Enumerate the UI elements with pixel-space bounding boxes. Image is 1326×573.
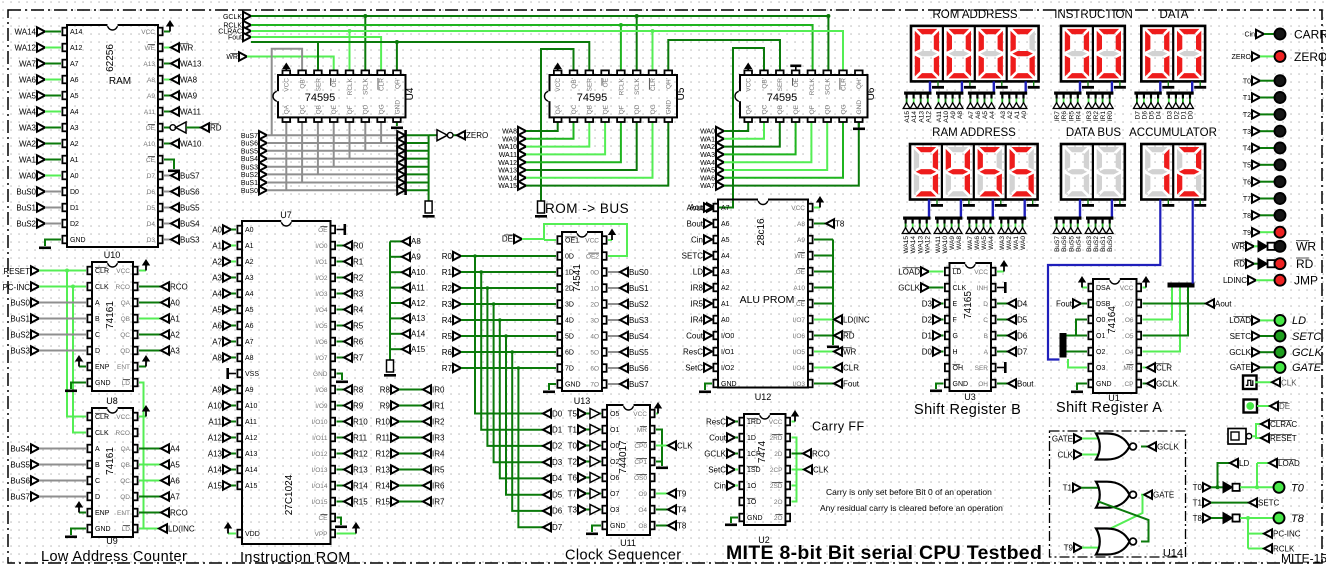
svg-text:U4: U4 [405,87,416,100]
svg-text:A13: A13 [143,61,155,68]
svg-text:IR6: IR6 [432,481,445,490]
wire R6 to U13 [461,351,556,353]
svg-text:WA13: WA13 [180,59,202,68]
wire U5 QB pull-down [541,49,574,201]
wire CLRAC to U4 RCLK [349,31,351,75]
wire [45,79,61,81]
tunnel R6 from U7 [337,341,345,343]
svg-text:GND: GND [95,526,111,533]
svg-text:WA9: WA9 [949,236,956,250]
svg-text:CP: CP [1124,381,1133,388]
svg-text:WE: WE [795,253,806,260]
svg-text:A5: A5 [982,111,989,119]
tunnel R8 from U7 [337,389,345,391]
svg-text:A6: A6 [212,321,222,330]
wire R4 staircase to D4 [500,320,543,478]
svg-text:LDINC: LDINC [1223,276,1247,285]
svg-text:ResC: ResC [706,417,726,426]
svg-text:RCO: RCO [812,449,830,458]
wire zero-gate outputs [407,134,429,136]
svg-text:WA13: WA13 [917,236,924,254]
svg-text:SER: SER [315,78,322,92]
svg-text:74161: 74161 [105,447,116,475]
svg-text:T1: T1 [1063,484,1073,493]
svg-text:VCC: VCC [116,414,130,421]
svg-text:QF: QF [347,105,354,114]
svg-text:A8: A8 [797,221,805,228]
tunnel LDINC [159,524,167,532]
svg-text:LD: LD [1292,315,1306,327]
svg-text:IR7: IR7 [432,497,445,506]
svg-text:A14: A14 [208,465,223,474]
svg-text:I/O9: I/O9 [315,403,328,410]
svg-text:I/O7: I/O7 [315,355,328,362]
svg-text:JMP: JMP [1294,273,1318,287]
wire U8 VCC [139,416,146,418]
net U5.QH to U6.SER [668,40,780,75]
svg-text:D2: D2 [70,221,79,228]
reset source component [1228,429,1246,445]
svg-text:QC: QC [300,104,307,114]
svg-text:IR5: IR5 [1068,111,1075,122]
tunnel R9 from U7 [337,405,345,407]
svg-text:CLK: CLK [1057,450,1073,459]
svg-text:BuS2: BuS2 [16,219,36,228]
wire display digit common [1000,200,1002,205]
svg-text:R0: R0 [442,252,453,261]
svg-text:I/O0: I/O0 [721,333,734,340]
wire U7 CE tie low [337,518,342,526]
shift register U3 74165 [950,263,992,391]
svg-text:Carry FF: Carry FF [812,420,865,434]
svg-text:BuS4: BuS4 [10,444,30,453]
tunnel R11 from U7 [337,437,345,439]
svg-text:QF: QF [809,105,816,114]
svg-text:T2: T2 [1243,112,1251,119]
svg-text:RCO: RCO [116,430,130,437]
wire U1 O6 to bar [1143,288,1173,320]
svg-text:A3: A3 [1000,111,1007,119]
svg-text:CLR: CLR [95,414,109,421]
svg-text:4D: 4D [565,318,574,325]
svg-text:A10: A10 [143,141,155,148]
svg-text:GND: GND [70,237,86,244]
svg-text:T3: T3 [568,505,578,514]
svg-text:I/O2: I/O2 [721,365,734,372]
wire BuS3 gray [267,166,399,168]
svg-text:D5: D5 [552,491,563,500]
svg-text:A1: A1 [70,157,79,164]
svg-text:IR7: IR7 [1054,111,1061,122]
svg-text:R11: R11 [376,433,391,442]
tunnel GCLK from gate1 [1141,446,1148,448]
svg-text:RCO: RCO [170,282,188,291]
tunnel A8 out [390,240,402,242]
svg-text:A15: A15 [904,111,911,123]
svg-text:A9: A9 [147,93,155,100]
svg-text:R1: R1 [353,257,364,266]
svg-text:GATE: GATE [1292,362,1322,374]
svg-text:O6: O6 [1125,317,1134,324]
tunnel D1 [543,426,551,434]
svg-text:Instruction ROM: Instruction ROM [240,550,351,566]
svg-text:2SD: 2SD [770,483,783,490]
svg-text:A7: A7 [212,337,222,346]
tunnel R5 from U7 [337,325,345,327]
svg-text:CLR: CLR [379,78,386,91]
display DATA [1141,26,1205,82]
svg-text:D0: D0 [552,409,563,418]
U3 INH tie [997,287,1004,289]
svg-text:R13: R13 [375,465,390,474]
svg-text:MR: MR [1123,365,1133,372]
svg-text:BuS5: BuS5 [10,460,30,469]
wire BuS2 gray [267,173,399,175]
svg-text:GND: GND [313,371,328,378]
wire WA0 to U6 [724,119,748,131]
wire [45,31,61,33]
svg-text:I/O1: I/O1 [315,259,328,266]
svg-text:WA1: WA1 [1013,236,1020,250]
svg-text:D0: D0 [922,347,933,356]
buffer U13 74541 [562,232,602,391]
svg-text:MITE 8-bit Bit serial CPU Test: MITE 8-bit Bit serial CPU Testbed [726,542,1042,564]
svg-text:VCC: VCC [284,78,291,92]
svg-text:D: D [983,301,988,308]
svg-text:IR4: IR4 [691,315,704,324]
svg-text:A0: A0 [1021,111,1028,119]
wire display digit blue [928,200,930,218]
tunnel RCO to U2 2D [792,453,804,455]
svg-text:74541: 74541 [572,264,583,292]
svg-text:GND: GND [747,515,763,522]
svg-text:BuS1: BuS1 [10,314,30,323]
svg-text:WA3: WA3 [999,236,1006,250]
connector DATA BUS pins [1054,217,1081,220]
svg-text:IR5: IR5 [432,465,445,474]
svg-text:I/O12: I/O12 [312,451,328,458]
tunnel WR from U12 [814,351,834,353]
svg-text:OE1: OE1 [565,238,579,245]
svg-text:R11: R11 [353,433,368,442]
svg-text:GCLK: GCLK [1156,379,1178,388]
svg-text:I/O6: I/O6 [793,333,806,340]
counter U10 74161 [92,262,133,391]
svg-text:GND: GND [610,523,626,530]
svg-text:BuS3: BuS3 [180,235,200,244]
svg-text:A10: A10 [411,268,426,277]
svg-text:BuS6: BuS6 [629,364,649,373]
svg-text:4O: 4O [590,333,599,340]
svg-text:WA10: WA10 [498,144,517,151]
svg-text:1D: 1D [747,435,756,442]
wire U8 GND [71,529,86,536]
wire U2 VCC [792,421,796,423]
svg-text:U14: U14 [1163,548,1183,560]
svg-text:T5: T5 [568,409,578,418]
svg-text:74164: 74164 [1107,306,1118,334]
tunnel LD(INC from U12 [814,319,834,321]
svg-text:IR5: IR5 [691,299,704,308]
tunnel CLRAC [1261,420,1269,428]
svg-text:D6: D6 [552,507,563,516]
svg-text:WA10: WA10 [180,139,202,148]
wire display digit common [1119,200,1121,205]
LED SETC [1275,331,1286,342]
svg-text:QE: QE [331,104,338,114]
svg-text:WA11: WA11 [935,236,942,253]
svg-text:I/O11: I/O11 [312,435,328,442]
tunnel R13 from U7 [337,469,345,471]
wire U5 VCC [557,68,559,74]
wire R4 to U13 [461,319,556,321]
svg-text:RD: RD [843,331,855,340]
tunnel A13 out [390,317,402,319]
svg-text:RD: RD [1296,257,1314,271]
EPROM U7 27C1024 [242,221,331,544]
wire BuS5 gray [267,150,399,152]
svg-text:Aout: Aout [1215,299,1232,308]
svg-text:R14: R14 [375,481,390,490]
svg-text:C: C [95,332,100,339]
svg-text:SETC: SETC [1292,331,1321,343]
wire R3 to U13 [461,303,556,305]
tunnel R15 from U7 [337,501,345,503]
svg-text:CLR: CLR [95,268,109,275]
svg-text:A11: A11 [208,417,222,426]
svg-text:A2: A2 [70,141,79,148]
wire R2 staircase to D2 [487,288,543,446]
svg-text:QB': QB' [761,78,768,89]
net reset to CLRAC RESET [1252,424,1261,436]
svg-text:WA8: WA8 [956,236,963,250]
svg-text:D: D [95,348,100,355]
svg-text:WA0: WA0 [19,171,37,180]
svg-text:D5: D5 [147,205,156,212]
svg-text:O8: O8 [638,523,647,530]
svg-text:5D: 5D [565,334,574,341]
wire [45,111,61,113]
inverter RAM OE - RD [164,127,170,129]
wire U1 O4 to bar [1143,288,1181,352]
LED GCLK [1275,347,1286,358]
tunnel D3 [543,458,551,466]
svg-text:WA1: WA1 [700,136,715,143]
svg-text:RCO: RCO [116,284,130,291]
tunnel D4 [543,474,551,482]
svg-text:D1: D1 [70,205,79,212]
svg-text:WA4: WA4 [19,107,37,116]
tunnel A3 from U10 [139,350,161,352]
LED T5 [1275,159,1286,170]
svg-text:A3: A3 [70,125,79,132]
svg-text:WA12: WA12 [15,43,37,52]
svg-text:CLK: CLK [1281,378,1297,387]
svg-text:PC-INC: PC-INC [2,283,30,292]
svg-text:BuS3: BuS3 [1086,236,1093,252]
inverter zero [429,134,437,136]
svg-text:OS0: OS0 [634,475,647,482]
connector RAM ADDRESS pins [903,217,930,220]
wire gate2 feedback to gate3 [1098,495,1143,535]
svg-text:U5: U5 [676,87,687,100]
svg-text:I/O14: I/O14 [312,483,328,490]
svg-text:BuS0: BuS0 [1107,236,1114,252]
svg-text:ACCUMULATOR: ACCUMULATOR [1129,127,1217,139]
LED T7 [1275,193,1286,204]
svg-text:BuS6: BuS6 [10,476,30,485]
svg-text:IR6: IR6 [1061,111,1068,122]
NOR gate U14a [1096,434,1130,460]
svg-text:U12: U12 [755,392,772,402]
svg-text:GND: GND [666,100,673,115]
wire U10 ENT tie [139,366,146,368]
svg-text:R3: R3 [442,300,453,309]
svg-text:A13: A13 [918,111,925,123]
svg-text:A5: A5 [70,93,79,100]
wire display digit blue [1023,200,1025,218]
svg-text:T7: T7 [1243,196,1251,203]
svg-text:H: H [953,349,958,356]
svg-text:D4: D4 [1017,299,1028,308]
svg-text:D2: D2 [552,442,563,451]
svg-text:T3: T3 [1243,129,1251,136]
tunnel WA8 [164,79,171,81]
svg-text:D7: D7 [1135,111,1142,120]
svg-text:IR1: IR1 [432,401,445,410]
tunnel D4 from U3 [997,303,1008,305]
svg-text:6O: 6O [590,365,599,372]
svg-text:SETC: SETC [1230,332,1252,341]
svg-text:Clock Sequencer: Clock Sequencer [565,548,681,564]
svg-text:VCC: VCC [141,29,155,36]
svg-text:QB: QB [777,105,784,114]
tunnel A4 from U8 [139,448,161,450]
svg-text:GCLK: GCLK [1229,348,1251,357]
tunnel WR at RAM WE [164,47,171,49]
svg-text:Fout: Fout [228,35,242,42]
svg-text:A7: A7 [968,111,975,119]
svg-text:CLK: CLK [953,285,967,292]
wire U10 VCC [139,270,146,272]
svg-text:Aout: Aout [687,203,704,212]
svg-text:QG: QG [840,104,847,114]
wire display digit blue [1079,200,1081,218]
svg-text:A1: A1 [170,314,180,323]
wire U4 VCC [285,68,287,74]
wire display digit common [1033,81,1035,86]
svg-text:OE: OE [603,77,610,87]
U13 outputs to BuS tunnels [608,271,620,273]
svg-text:WR: WR [1296,239,1316,253]
svg-text:BuS0: BuS0 [16,187,36,196]
svg-text:BuS7: BuS7 [1054,236,1061,252]
svg-text:O1: O1 [1096,333,1105,340]
svg-text:A8: A8 [212,353,222,362]
svg-text:WA12: WA12 [498,160,517,167]
wire display digit blue [1079,81,1081,92]
wire R0 staircase to D0 [475,256,543,414]
svg-text:QG: QG [379,104,386,114]
svg-text:GCLK: GCLK [704,449,726,458]
svg-text:LD: LD [953,269,962,276]
svg-text:OE: OE [793,77,800,87]
wire U7 GND [337,374,343,381]
svg-text:SER: SER [975,365,989,372]
tunnel A12 out [390,302,402,304]
wire U1 VCC [1143,287,1147,289]
shift register U6 74595 [740,75,868,117]
svg-text:A12: A12 [411,299,426,308]
svg-text:A3: A3 [721,269,730,276]
svg-text:DE: DE [502,235,513,244]
tunnel CLR to U1 MR [1143,367,1148,369]
junction bar U1 outputs [1168,283,1195,288]
svg-text:R6: R6 [442,348,453,357]
svg-text:WA7: WA7 [700,183,715,190]
svg-text:74161: 74161 [105,301,116,329]
svg-text:QC: QC [120,478,130,485]
wire WA5 to U6 [724,119,827,170]
wire WA3 to U6 [724,119,796,154]
wire U12 upper address tie [832,240,834,346]
svg-text:A2: A2 [245,259,254,266]
wire display digit common [1199,200,1201,205]
wire BuS4 gray [267,158,399,160]
svg-text:CLRAC: CLRAC [1270,420,1297,429]
svg-text:A13: A13 [411,314,426,323]
svg-text:CLR: CLR [843,363,859,372]
inverter pair T0 [1223,482,1233,493]
svg-text:7D: 7D [565,366,574,373]
svg-text:BuS3: BuS3 [10,346,30,355]
svg-text:ENP: ENP [95,364,110,371]
svg-text:ENT: ENT [117,364,130,371]
tunnel T8 from U11 [656,525,668,527]
svg-text:CE: CE [796,301,806,308]
svg-text:G: G [953,333,958,340]
svg-text:A2: A2 [1007,111,1014,119]
wire BuS6 gray [267,142,399,144]
svg-text:3O: 3O [590,317,599,324]
svg-text:R6: R6 [353,337,364,346]
tunnel BuS3 RAM data [164,239,171,241]
tunnel A10 out [390,271,402,273]
tunnel GCLK to U1 CP [1143,383,1148,385]
wire WA7 to U6 [724,119,859,185]
svg-text:7474: 7474 [757,440,768,463]
svg-text:O2: O2 [1096,349,1105,356]
svg-text:QA: QA [746,104,753,114]
wire U6 VCC [747,68,749,74]
svg-text:WA7: WA7 [967,236,974,250]
svg-text:BuS5: BuS5 [629,348,649,357]
wire [45,47,61,49]
wire WA6 to U6 [724,119,843,177]
svg-text:62256: 62256 [105,44,116,72]
LED RDbar [1275,258,1286,269]
LED CARRY [1275,29,1286,40]
svg-text:WA7: WA7 [19,59,37,68]
LED T0 [1275,75,1286,86]
tunnel CLK to U11 CP0 [656,445,668,447]
wire U4 QB gray loop [272,49,302,136]
wire U6 GND [858,119,860,127]
svg-text:BuS0: BuS0 [629,268,649,277]
svg-text:QA: QA [555,104,562,114]
wire display digit common [1199,81,1201,86]
svg-text:A6: A6 [975,111,982,119]
